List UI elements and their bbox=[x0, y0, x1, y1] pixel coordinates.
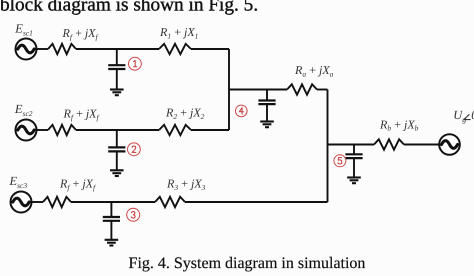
svg-text:Fig. 4. System diagram in simu: Fig. 4. System diagram in simulation bbox=[129, 255, 366, 272]
svg-text:Rb + jXb: Rb + jXb bbox=[379, 117, 419, 132]
svg-text:Rf + jXf: Rf + jXf bbox=[63, 107, 100, 122]
svg-text:Rf + jXf: Rf + jXf bbox=[59, 176, 96, 191]
svg-text:R3 + jX3: R3 + jX3 bbox=[166, 176, 206, 191]
svg-text:R2 + jX2: R2 + jX2 bbox=[165, 105, 205, 120]
svg-text:block diagram is shown in Fig.: block diagram is shown in Fig. 5. bbox=[0, 0, 258, 15]
svg-text:Rf + jXf: Rf + jXf bbox=[62, 26, 99, 41]
svg-text:Ra + jXa: Ra + jXa bbox=[294, 63, 334, 78]
svg-text:R1 + jX1: R1 + jX1 bbox=[159, 25, 198, 40]
